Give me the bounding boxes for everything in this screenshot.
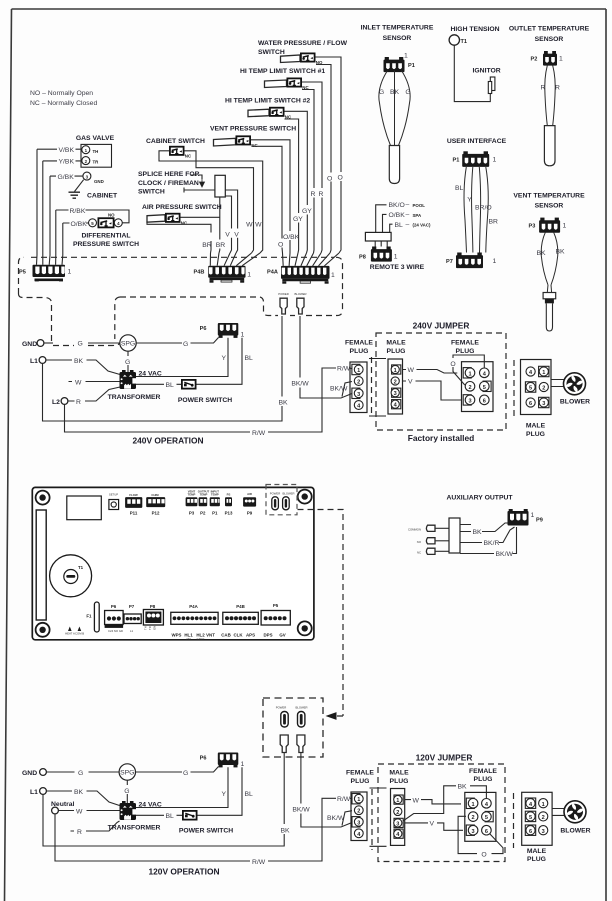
svg-text:CABINET SWITCH: CABINET SWITCH xyxy=(146,138,205,145)
svg-text:R/W: R/W xyxy=(252,430,266,437)
wire BK jumper male3 to female4 120V xyxy=(403,784,486,822)
mating dashes female/male 120V xyxy=(370,788,387,850)
ignitor xyxy=(473,68,501,94)
svg-text:3: 3 xyxy=(468,399,471,405)
svg-text:1: 1 xyxy=(394,254,398,261)
svg-text:VENT TEMPERATURE: VENT TEMPERATURE xyxy=(513,193,585,200)
blower fan 240V xyxy=(560,373,590,406)
120V BLOWER spade xyxy=(297,735,305,753)
connector P11 FLOW xyxy=(125,493,142,516)
wire BK/W blower spade down xyxy=(291,316,352,398)
svg-text:1: 1 xyxy=(247,272,251,279)
svg-text:Y/BK: Y/BK xyxy=(59,159,75,166)
svg-text:P2: P2 xyxy=(531,57,538,63)
svg-text:O: O xyxy=(278,242,283,249)
svg-text:HIGH TENSION: HIGH TENSION xyxy=(451,26,500,33)
svg-text:G/BK: G/BK xyxy=(58,174,75,181)
svg-text:CLK: CLK xyxy=(233,633,243,638)
svg-text:P1: P1 xyxy=(408,63,415,69)
wire GY (HT2 NC rail) xyxy=(285,119,304,253)
svg-text:NO – Normally Open: NO – Normally Open xyxy=(30,90,93,97)
svg-text:R: R xyxy=(555,85,560,92)
board BLOWER receptacle xyxy=(283,497,290,510)
wire G SPG down xyxy=(125,351,130,372)
aux spade COMMON xyxy=(408,525,449,531)
svg-text:COMMON: COMMON xyxy=(408,528,421,532)
aux wire BK/R xyxy=(460,527,515,547)
wire G GND to SPG xyxy=(47,770,120,777)
svg-text:BK: BK xyxy=(473,529,483,536)
svg-text:PLUG: PLUG xyxy=(351,778,370,785)
120V OPERATION title xyxy=(148,867,219,877)
wire BL transformer to power switch 120V xyxy=(136,813,182,820)
svg-text:1: 1 xyxy=(396,798,399,804)
connector P12 CHIM xyxy=(146,493,165,516)
svg-text:FEMALE: FEMALE xyxy=(345,340,373,347)
board POWER receptacle xyxy=(272,497,279,510)
svg-text:R: R xyxy=(76,399,81,406)
svg-text:FEMALE: FEMALE xyxy=(451,340,479,347)
svg-text:P7: P7 xyxy=(129,604,135,609)
svg-text:T1: T1 xyxy=(461,39,468,45)
board connector P8 xyxy=(143,604,163,630)
outlet sensor probe xyxy=(544,126,555,166)
120V BLOWER spade wire BK/W xyxy=(292,753,352,828)
svg-text:SETUP: SETUP xyxy=(109,493,118,497)
svg-text:1: 1 xyxy=(472,802,475,808)
120V POWER/BLOWER dashed box xyxy=(263,698,323,757)
svg-text:G: G xyxy=(78,341,83,348)
svg-text:GND: GND xyxy=(94,179,104,184)
board connector P4B xyxy=(221,604,258,638)
svg-text:INLET TEMPERATURE: INLET TEMPERATURE xyxy=(361,25,434,32)
svg-text:1: 1 xyxy=(357,797,360,803)
svg-text:3: 3 xyxy=(357,820,360,826)
hi temp limit switch #2 xyxy=(225,98,310,120)
screw bottom-left xyxy=(36,623,50,637)
connector P2 OUTPUT TEMP xyxy=(198,489,210,515)
svg-text:BLOWER: BLOWER xyxy=(560,828,590,835)
svg-text:G: G xyxy=(124,788,129,795)
svg-text:CAB: CAB xyxy=(221,633,231,638)
svg-text:5: 5 xyxy=(529,386,532,392)
svg-text:SPG: SPG xyxy=(120,770,134,777)
svg-text:SWITCH: SWITCH xyxy=(138,189,165,196)
screw top-left xyxy=(36,491,50,505)
splice note xyxy=(138,171,205,196)
svg-text:AUXILIARY OUTPUT: AUXILIARY OUTPUT xyxy=(446,495,513,502)
svg-text:CHIM: CHIM xyxy=(151,493,159,497)
svg-text:P9: P9 xyxy=(247,511,253,516)
board top-left module xyxy=(67,496,102,520)
svg-text:VENT PRESSURE SWITCH: VENT PRESSURE SWITCH xyxy=(210,126,296,133)
120V jumper dashed box xyxy=(378,764,505,862)
gas valve box xyxy=(76,135,115,167)
terminal 1 xyxy=(82,146,90,154)
svg-text:2: 2 xyxy=(542,386,545,392)
wire O jumper pin4 to pin2 240V xyxy=(450,355,484,385)
screw bottom-right xyxy=(298,621,312,635)
svg-text:2: 2 xyxy=(396,810,399,816)
svg-text:–: – xyxy=(406,212,410,219)
svg-text:GV: GV xyxy=(279,633,285,638)
female plug 2x3 240V xyxy=(451,340,493,412)
user interface wires xyxy=(455,167,498,253)
svg-text:MALE: MALE xyxy=(386,340,406,347)
wire to P5 pin1 xyxy=(36,149,39,265)
svg-text:L1: L1 xyxy=(30,789,38,796)
120V JUMPER title xyxy=(416,753,473,763)
svg-text:P12: P12 xyxy=(152,511,160,516)
svg-text:6: 6 xyxy=(485,829,488,835)
svg-text:O: O xyxy=(481,851,486,858)
wire BK L1 to transformer 120V xyxy=(47,789,120,806)
svg-text:NC – Normally Closed: NC – Normally Closed xyxy=(30,100,97,107)
splice connector xyxy=(215,175,225,197)
svg-text:NC: NC xyxy=(185,153,192,158)
svg-text:P6: P6 xyxy=(111,604,117,609)
svg-text:GY: GY xyxy=(293,216,303,223)
svg-text:VNT: VNT xyxy=(206,633,215,638)
mating dashes female/male 240V xyxy=(369,357,386,417)
wire Y/BK xyxy=(43,159,82,166)
hi temp limit switch #1 xyxy=(240,68,325,90)
wire O/BK (vent sw right lead) xyxy=(251,140,300,253)
wire R L2 to transformer xyxy=(68,387,120,406)
power switch 240V xyxy=(178,380,232,404)
120V POWER spade xyxy=(280,735,288,753)
svg-text:NO: NO xyxy=(108,213,115,218)
svg-text:CLOCK / FIREMAN: CLOCK / FIREMAN xyxy=(138,180,199,187)
svg-text:L2: L2 xyxy=(52,399,60,406)
svg-text:3: 3 xyxy=(357,392,360,398)
svg-text:5: 5 xyxy=(485,815,488,821)
transformer 240V xyxy=(108,370,162,401)
svg-text:PLUG: PLUG xyxy=(527,856,546,863)
svg-text:BK: BK xyxy=(458,784,468,791)
wire to P5 pin2 xyxy=(42,161,44,265)
cabinet switch xyxy=(146,138,205,158)
svg-text:BL: BL xyxy=(245,791,254,798)
svg-text:(24 VAC): (24 VAC) xyxy=(413,223,432,228)
vent temperature sensor xyxy=(513,193,585,233)
board outline xyxy=(32,487,314,639)
terminal 3 xyxy=(83,172,104,184)
wire W Neutral to transformer xyxy=(59,808,120,815)
outlet temperature sensor xyxy=(509,26,590,66)
svg-text:POWER: POWER xyxy=(278,292,289,296)
connector P8 xyxy=(359,247,425,272)
svg-text:TEMP: TEMP xyxy=(188,493,196,497)
svg-text:P1: P1 xyxy=(212,511,218,516)
svg-text:120V OPERATION: 120V OPERATION xyxy=(148,867,219,877)
aux spade NO xyxy=(417,538,449,544)
wire V/BK xyxy=(37,147,82,154)
SPG circle 120V xyxy=(119,764,135,780)
svg-text:5: 5 xyxy=(529,815,532,821)
svg-text:O/BK: O/BK xyxy=(71,221,88,228)
connector P4A xyxy=(267,253,339,284)
svg-text:R/W: R/W xyxy=(337,366,351,373)
board indicator arrows xyxy=(65,627,84,636)
svg-text:G: G xyxy=(405,89,410,96)
remote 3 wire wires xyxy=(375,205,392,247)
svg-text:BK: BK xyxy=(74,358,84,365)
svg-text:NC: NC xyxy=(251,143,258,148)
svg-text:BK/W: BK/W xyxy=(327,815,345,822)
svg-text:W: W xyxy=(75,379,82,386)
svg-text:SWITCH: SWITCH xyxy=(258,49,285,56)
svg-text:MALE: MALE xyxy=(526,423,546,430)
svg-text:BR: BR xyxy=(489,219,499,226)
svg-text:1: 1 xyxy=(68,269,72,276)
svg-text:3: 3 xyxy=(542,829,545,835)
svg-text:TRANSFORMER: TRANSFORMER xyxy=(108,825,161,832)
wire G SPG to P6 120V xyxy=(136,767,219,777)
svg-text:BK/W: BK/W xyxy=(496,551,514,558)
svg-text:3: 3 xyxy=(396,821,399,827)
svg-text:P8: P8 xyxy=(150,604,156,609)
svg-text:P5: P5 xyxy=(273,603,279,608)
svg-text:TRANSFORMER: TRANSFORMER xyxy=(108,394,161,401)
high tension T1 xyxy=(449,26,500,45)
svg-text:R: R xyxy=(311,191,316,198)
svg-text:O/BK: O/BK xyxy=(389,212,406,219)
svg-text:TH: TH xyxy=(93,149,99,154)
svg-text:P3: P3 xyxy=(189,511,195,516)
svg-text:TEMP: TEMP xyxy=(211,493,219,497)
connector P6 240V xyxy=(200,323,245,339)
svg-text:COM B: COM B xyxy=(75,632,84,636)
svg-text:1: 1 xyxy=(394,368,397,374)
svg-text:Factory installed: Factory installed xyxy=(408,433,475,443)
wire to P5 pin4 xyxy=(55,210,57,265)
svg-text:REMOTE 3 WIRE: REMOTE 3 WIRE xyxy=(370,264,425,271)
wire G SPG to P6 xyxy=(136,338,218,348)
svg-text:P4B: P4B xyxy=(194,270,205,276)
svg-text:BK/W: BK/W xyxy=(330,386,348,393)
svg-text:Y: Y xyxy=(467,197,472,204)
wire GY (HT2 right lead) xyxy=(285,111,313,253)
svg-text:BK: BK xyxy=(74,789,84,796)
240V jumper dashed box xyxy=(376,333,506,430)
terminal 2 xyxy=(82,157,90,165)
wire BL switch to P6 120V xyxy=(198,767,254,815)
svg-text:2: 2 xyxy=(472,815,475,821)
svg-text:BL: BL xyxy=(166,382,175,389)
water pressure / flow switch xyxy=(258,40,348,65)
wire BR (splice bottom) xyxy=(216,197,226,253)
blower male plug 120V xyxy=(514,792,553,863)
svg-text:6: 6 xyxy=(529,829,532,835)
svg-text:BK/R: BK/R xyxy=(484,540,500,547)
connector P5 xyxy=(19,265,72,282)
svg-text:2: 2 xyxy=(468,385,471,391)
svg-text:SENSOR: SENSOR xyxy=(383,35,412,42)
svg-text:GND: GND xyxy=(22,341,37,348)
svg-text:6: 6 xyxy=(529,401,532,407)
120V BLOWER receptacle xyxy=(295,706,307,728)
inlet sensor probe xyxy=(389,146,399,184)
svg-text:BLOWER: BLOWER xyxy=(294,292,306,296)
svg-text:PRESSURE SWITCH: PRESSURE SWITCH xyxy=(73,241,139,248)
cabinet switch wires / W rails xyxy=(159,151,263,253)
svg-text:W: W xyxy=(76,808,83,815)
vent sensor wires BK BK xyxy=(536,232,565,285)
wire 24VAC to Y xyxy=(136,338,228,377)
vent pressure switch xyxy=(210,126,296,149)
120V POWER receptacle xyxy=(276,706,288,728)
dashed link board to 120V power/blower box xyxy=(298,510,344,720)
svg-text:240: 240 xyxy=(186,637,191,641)
legend text xyxy=(30,90,97,107)
240V OPERATION title xyxy=(132,436,203,446)
svg-text:V: V xyxy=(225,232,230,239)
svg-text:WATER PRESSURE / FLOW: WATER PRESSURE / FLOW xyxy=(258,40,348,47)
svg-text:P1: P1 xyxy=(453,158,460,164)
SPG circle xyxy=(120,335,136,351)
GND terminal 120V xyxy=(22,769,46,777)
svg-text:AIR: AIR xyxy=(247,492,252,496)
svg-text:BL: BL xyxy=(395,222,404,229)
svg-text:O: O xyxy=(327,176,332,183)
svg-text:1: 1 xyxy=(357,368,360,374)
svg-text:1: 1 xyxy=(241,332,245,339)
connector P13 xyxy=(225,493,233,516)
connector P6 120V xyxy=(200,753,245,769)
svg-text:HI TEMP LIMIT SWITCH #1: HI TEMP LIMIT SWITCH #1 xyxy=(240,68,325,75)
svg-text:P2: P2 xyxy=(200,511,206,516)
svg-text:1: 1 xyxy=(493,157,497,164)
svg-text:USER INTERFACE: USER INTERFACE xyxy=(447,138,507,145)
blower male plug 240V xyxy=(514,360,551,438)
svg-text:2: 2 xyxy=(394,380,397,386)
svg-text:1: 1 xyxy=(542,370,545,376)
L1 terminal 120V xyxy=(30,788,46,796)
wire T1 to ignitor xyxy=(454,45,490,101)
svg-text:G: G xyxy=(78,770,83,777)
female plug 4pin 120V xyxy=(346,770,374,841)
svg-text:GY: GY xyxy=(302,208,312,215)
svg-text:P4B: P4B xyxy=(236,604,245,609)
aux wire BK xyxy=(460,523,510,536)
wire V male3 to female3 120V xyxy=(405,821,463,831)
svg-text:W: W xyxy=(255,222,262,229)
svg-text:G: G xyxy=(183,770,188,777)
svg-text:BLOWER: BLOWER xyxy=(282,492,294,496)
svg-text:P3: P3 xyxy=(529,224,536,230)
svg-text:R/W: R/W xyxy=(337,796,351,803)
svg-text:1: 1 xyxy=(468,371,471,377)
svg-text:FLOW: FLOW xyxy=(129,493,138,497)
svg-text:BLOWER: BLOWER xyxy=(295,706,307,710)
connector P9 AIR xyxy=(243,492,256,516)
wire O jumper pin6 to pin2 120V xyxy=(458,816,503,858)
wire O/BK xyxy=(63,221,89,228)
svg-text:P5: P5 xyxy=(19,270,26,276)
svg-text:Y: Y xyxy=(221,791,226,798)
svg-text:1: 1 xyxy=(331,272,335,279)
air switch right lead xyxy=(181,216,220,218)
svg-text:P11: P11 xyxy=(130,511,138,516)
aux wire BK/W xyxy=(460,527,517,558)
svg-text:POWER: POWER xyxy=(270,492,281,496)
svg-text:TR: TR xyxy=(148,626,152,630)
svg-text:HEAT A: HEAT A xyxy=(65,632,75,636)
transformer 120V xyxy=(108,801,162,832)
svg-text:P8: P8 xyxy=(359,255,366,261)
svg-text:G: G xyxy=(125,359,130,366)
svg-text:W: W xyxy=(246,222,253,229)
wire BK L1 to transformer xyxy=(46,358,120,375)
aux title xyxy=(446,495,513,502)
transformer T1 on board xyxy=(50,555,92,597)
power switch 120V xyxy=(179,811,233,835)
board connector P7 xyxy=(124,604,141,633)
screw top-right xyxy=(298,490,312,504)
svg-text:PLUG: PLUG xyxy=(474,776,493,783)
svg-text:SENSOR: SENSOR xyxy=(535,203,564,210)
svg-text:BLOWER: BLOWER xyxy=(560,399,590,406)
svg-text:GN: GN xyxy=(153,626,157,630)
svg-text:PLUG: PLUG xyxy=(390,778,409,785)
svg-text:BL: BL xyxy=(455,185,464,192)
svg-text:1: 1 xyxy=(404,53,408,60)
wire R/W bottom Neutral loop 120V xyxy=(55,796,354,866)
board edge connector xyxy=(36,510,46,620)
svg-text:1: 1 xyxy=(493,258,497,265)
svg-text:GND: GND xyxy=(22,770,37,777)
wire O (water sw NC rail) xyxy=(316,65,332,254)
svg-text:Y: Y xyxy=(221,355,226,362)
svg-text:BL: BL xyxy=(166,813,175,820)
svg-text:P7: P7 xyxy=(446,259,453,265)
fuse F1 xyxy=(86,602,99,632)
svg-text:GAS VALVE: GAS VALVE xyxy=(76,135,115,142)
connector P4B xyxy=(194,253,261,283)
svg-text:V/BK: V/BK xyxy=(59,147,75,154)
svg-text:O: O xyxy=(338,175,343,182)
wire V (splice lower tap) xyxy=(225,196,231,253)
svg-text:L1: L1 xyxy=(130,629,134,633)
svg-text:BK: BK xyxy=(536,250,546,257)
svg-text:R: R xyxy=(319,191,324,198)
svg-text:P9: P9 xyxy=(536,518,543,524)
dashed cabinet boundary box xyxy=(19,257,343,341)
svg-text:L1: L1 xyxy=(30,358,38,365)
svg-text:120V JUMPER: 120V JUMPER xyxy=(416,753,473,763)
svg-text:TR: TR xyxy=(93,160,100,165)
wire R (HT1 right lead) xyxy=(302,82,324,253)
svg-text:–: – xyxy=(406,221,410,228)
svg-text:3: 3 xyxy=(394,391,397,397)
wire R/W bottom L2 loop xyxy=(65,366,355,437)
120V POWER spade wire BK xyxy=(43,753,290,847)
svg-text:G: G xyxy=(183,341,188,348)
female plug 4pin 240V xyxy=(345,340,373,413)
svg-text:BK: BK xyxy=(390,89,400,96)
svg-text:APS: APS xyxy=(246,633,255,638)
GND terminal 240V xyxy=(22,340,44,348)
inlet temperature sensor xyxy=(361,25,434,73)
svg-text:1: 1 xyxy=(542,802,545,808)
connector P7 (user interface) xyxy=(446,253,497,269)
Factory installed xyxy=(408,433,475,443)
svg-text:BK/O: BK/O xyxy=(389,202,405,209)
svg-text:GRAY: GRAY xyxy=(197,637,205,641)
svg-text:W: W xyxy=(408,367,415,374)
user interface xyxy=(447,138,507,167)
